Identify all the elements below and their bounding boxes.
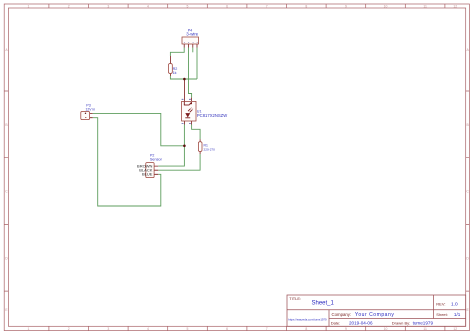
svg-text:6: 6	[226, 5, 228, 9]
svg-text:12: 12	[453, 5, 457, 9]
svg-text:10: 10	[384, 327, 388, 331]
svg-text:4: 4	[147, 5, 149, 9]
svg-text:5: 5	[187, 327, 189, 331]
svg-text:5: 5	[187, 5, 189, 9]
svg-text:Sheet_1: Sheet_1	[312, 301, 335, 307]
svg-text:8: 8	[305, 327, 307, 331]
svg-text:6: 6	[226, 327, 228, 331]
svg-text:1: 1	[28, 5, 30, 9]
svg-text:Sheet:: Sheet:	[436, 312, 448, 317]
svg-text:3: 3	[107, 5, 109, 9]
svg-text:1/1: 1/1	[454, 312, 461, 317]
svg-text:Drawn By:: Drawn By:	[392, 320, 410, 325]
svg-text:Company:: Company:	[332, 312, 352, 317]
svg-text:Date:: Date:	[331, 320, 341, 325]
svg-text:Your Company: Your Company	[355, 312, 395, 318]
svg-text:7: 7	[266, 5, 268, 9]
svg-text:3: 3	[107, 327, 109, 331]
svg-text:12V in: 12V in	[86, 107, 96, 111]
svg-text:TITLE:: TITLE:	[289, 296, 301, 301]
svg-text:220-270: 220-270	[204, 147, 216, 151]
svg-text:4: 4	[147, 327, 149, 331]
svg-text:11: 11	[423, 5, 427, 9]
svg-text:Sensor: Sensor	[150, 158, 163, 162]
svg-text:BLUE: BLUE	[142, 172, 153, 177]
svg-text:https://easyeda.com/tume1979: https://easyeda.com/tume1979	[288, 317, 327, 321]
svg-text:7: 7	[266, 327, 268, 331]
svg-text:1k: 1k	[173, 71, 177, 75]
svg-text:PC817X2NSZW: PC817X2NSZW	[197, 113, 227, 118]
svg-text:3-wire: 3-wire	[186, 31, 199, 36]
svg-text:2019-04-06: 2019-04-06	[349, 320, 373, 325]
svg-text:8: 8	[305, 5, 307, 9]
svg-text:2: 2	[68, 5, 70, 9]
svg-text:2: 2	[68, 327, 70, 331]
svg-text:1: 1	[28, 327, 30, 331]
svg-text:9: 9	[345, 5, 347, 9]
svg-text:11: 11	[423, 327, 427, 331]
svg-text:1.0: 1.0	[451, 301, 458, 307]
svg-text:12: 12	[453, 327, 457, 331]
svg-text:9: 9	[345, 327, 347, 331]
svg-text:10: 10	[384, 5, 388, 9]
svg-text:REV:: REV:	[436, 301, 445, 306]
svg-text:tume1979: tume1979	[413, 320, 434, 325]
